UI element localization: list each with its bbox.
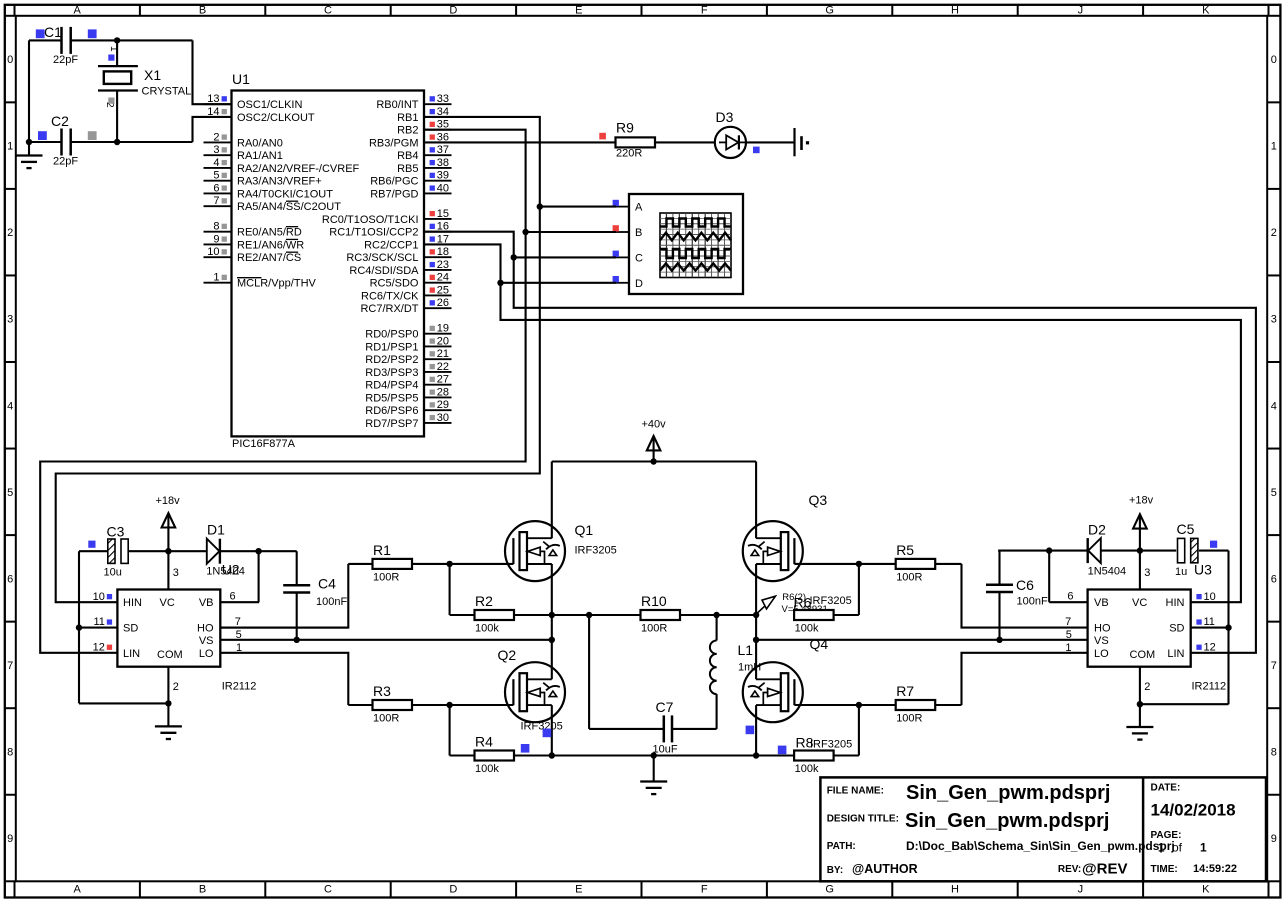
svg-text:L1: L1 — [738, 642, 754, 658]
svg-text:VC: VC — [160, 597, 175, 609]
svg-text:+18v: +18v — [1129, 495, 1154, 507]
svg-text:VS: VS — [199, 635, 214, 647]
svg-text:C2: C2 — [51, 113, 69, 129]
svg-text:11: 11 — [1204, 616, 1215, 628]
svg-text:27: 27 — [437, 374, 449, 386]
svg-text:R4: R4 — [475, 734, 493, 750]
svg-text:5: 5 — [213, 170, 219, 182]
svg-text:LIN: LIN — [1167, 648, 1184, 660]
svg-text:21: 21 — [437, 348, 449, 360]
svg-text:RB2: RB2 — [397, 125, 418, 137]
svg-text:CRYSTAL: CRYSTAL — [142, 86, 192, 98]
svg-text:PIC16F877A: PIC16F877A — [232, 438, 296, 450]
svg-text:A: A — [74, 5, 82, 17]
svg-text:1: 1 — [108, 46, 119, 52]
svg-text:100R: 100R — [373, 571, 399, 583]
svg-text:LO: LO — [199, 648, 214, 660]
svg-text:J: J — [1078, 884, 1084, 896]
svg-text:10: 10 — [1204, 591, 1216, 603]
svg-text:K: K — [1202, 5, 1210, 17]
svg-text:9: 9 — [1271, 833, 1277, 845]
svg-text:1: 1 — [213, 272, 219, 284]
svg-text:C1: C1 — [44, 24, 62, 40]
svg-text:10uF: 10uF — [653, 744, 678, 756]
svg-text:22pF: 22pF — [53, 156, 78, 168]
svg-text:VC: VC — [1132, 597, 1147, 609]
svg-text:40: 40 — [437, 182, 449, 194]
svg-text:RC1/T1OSI/CCP2: RC1/T1OSI/CCP2 — [329, 227, 418, 239]
svg-text:U1: U1 — [232, 71, 250, 87]
svg-text:RB1: RB1 — [397, 112, 418, 124]
svg-text:6: 6 — [1271, 573, 1277, 585]
svg-text:1: 1 — [1200, 841, 1207, 855]
svg-text:C3: C3 — [107, 524, 125, 540]
svg-text:1u: 1u — [1175, 566, 1187, 578]
svg-text:D: D — [449, 5, 457, 17]
svg-text:IR2112: IR2112 — [1192, 681, 1227, 693]
svg-text:C: C — [635, 252, 643, 264]
svg-text:4: 4 — [7, 400, 13, 412]
svg-text:@REV: @REV — [1082, 861, 1127, 878]
svg-text:9: 9 — [7, 833, 13, 845]
svg-text:RB6/PGC: RB6/PGC — [370, 176, 418, 188]
svg-text:F: F — [701, 884, 708, 896]
svg-text:18: 18 — [437, 246, 449, 258]
svg-text:A: A — [74, 884, 82, 896]
svg-text:33: 33 — [437, 93, 449, 105]
svg-text:B: B — [199, 5, 206, 17]
svg-text:R1: R1 — [373, 542, 391, 558]
svg-text:2: 2 — [1271, 227, 1277, 239]
svg-text:RE0/AN5/RD: RE0/AN5/RD — [237, 227, 302, 239]
svg-text:2: 2 — [1144, 681, 1150, 693]
svg-text:B: B — [199, 884, 206, 896]
svg-text:D: D — [635, 278, 643, 290]
svg-text:RB4: RB4 — [397, 150, 418, 162]
svg-text:IRF3205: IRF3205 — [521, 721, 563, 733]
svg-text:LO: LO — [1094, 648, 1109, 660]
svg-text:RD6/PSP6: RD6/PSP6 — [365, 405, 418, 417]
svg-text:C5: C5 — [1177, 521, 1195, 537]
svg-text:26: 26 — [437, 297, 449, 309]
svg-text:100R: 100R — [373, 713, 399, 725]
svg-text:SD: SD — [1169, 623, 1184, 635]
svg-text:OSC2/CLKOUT: OSC2/CLKOUT — [237, 112, 315, 124]
svg-text:R8: R8 — [796, 734, 814, 750]
svg-text:TIME:: TIME: — [1151, 864, 1178, 875]
svg-text:RD1/PSP1: RD1/PSP1 — [365, 341, 418, 353]
svg-text:6: 6 — [1067, 591, 1073, 603]
svg-text:RA5/AN4/SS/C2OUT: RA5/AN4/SS/C2OUT — [237, 201, 341, 213]
svg-text:+40v: +40v — [642, 419, 667, 431]
svg-text:Sin_Gen_pwm.pdsprj: Sin_Gen_pwm.pdsprj — [905, 810, 1109, 832]
svg-text:100R: 100R — [896, 571, 922, 583]
svg-text:14/02/2018: 14/02/2018 — [1151, 801, 1236, 820]
svg-text:X1: X1 — [144, 67, 161, 83]
svg-text:29: 29 — [437, 399, 449, 411]
svg-text:C: C — [324, 5, 332, 17]
svg-text:0: 0 — [7, 54, 13, 66]
svg-text:100k: 100k — [475, 763, 499, 775]
svg-text:7: 7 — [1065, 616, 1071, 628]
svg-text:100nF: 100nF — [1017, 596, 1048, 608]
svg-text:G: G — [825, 884, 834, 896]
svg-text:RD4/PSP4: RD4/PSP4 — [365, 380, 418, 392]
svg-text:7: 7 — [7, 660, 13, 672]
svg-text:25: 25 — [437, 284, 449, 296]
svg-text:of: of — [1172, 841, 1183, 855]
svg-text:Q4: Q4 — [810, 636, 829, 652]
svg-text:D2: D2 — [1088, 522, 1106, 538]
svg-text:100nF: 100nF — [316, 596, 347, 608]
svg-text:15: 15 — [437, 208, 449, 220]
svg-text:R2: R2 — [475, 593, 493, 609]
svg-text:B: B — [635, 227, 642, 239]
svg-text:0: 0 — [1271, 54, 1277, 66]
svg-text:22pF: 22pF — [53, 54, 78, 66]
svg-text:100k: 100k — [475, 623, 499, 635]
svg-text:24: 24 — [437, 272, 449, 284]
svg-text:RA3/AN3/VREF+: RA3/AN3/VREF+ — [237, 176, 322, 188]
svg-text:H: H — [951, 884, 959, 896]
svg-text:D3: D3 — [716, 109, 734, 125]
svg-text:D1: D1 — [207, 522, 225, 538]
svg-text:D: D — [449, 884, 457, 896]
svg-text:RC4/SDI/SDA: RC4/SDI/SDA — [349, 265, 419, 277]
svg-text:10u: 10u — [104, 567, 122, 579]
svg-text:RA2/AN2/VREF-/CVREF: RA2/AN2/VREF-/CVREF — [237, 163, 360, 175]
svg-text:IR2112: IR2112 — [222, 681, 257, 693]
svg-text:Q1: Q1 — [575, 522, 594, 538]
svg-text:Sin_Gen_pwm.pdsprj: Sin_Gen_pwm.pdsprj — [906, 782, 1110, 804]
svg-text:1: 1 — [1158, 841, 1165, 855]
svg-text:A: A — [635, 202, 643, 214]
svg-text:3: 3 — [1271, 314, 1277, 326]
svg-text:RE1/AN6/WR: RE1/AN6/WR — [237, 239, 304, 251]
svg-text:1N5404: 1N5404 — [1088, 566, 1127, 578]
svg-text:14: 14 — [207, 106, 219, 118]
svg-text:E: E — [575, 5, 582, 17]
svg-text:U2: U2 — [222, 562, 240, 578]
svg-text:3: 3 — [173, 567, 179, 579]
svg-text:14:59:22: 14:59:22 — [1193, 863, 1237, 875]
svg-text:100k: 100k — [795, 623, 819, 635]
svg-text:R5: R5 — [896, 542, 914, 558]
svg-text:8: 8 — [1271, 746, 1277, 758]
svg-text:3: 3 — [213, 144, 219, 156]
svg-text:PATH:: PATH: — [827, 841, 856, 852]
svg-text:7: 7 — [235, 616, 241, 628]
svg-text:RC3/SCK/SCL: RC3/SCK/SCL — [346, 252, 418, 264]
svg-text:19: 19 — [437, 323, 449, 335]
svg-text:12: 12 — [1204, 641, 1216, 653]
svg-text:20: 20 — [437, 335, 449, 347]
svg-text:Q3: Q3 — [809, 492, 828, 508]
svg-text:SD: SD — [123, 623, 138, 635]
svg-text:DESIGN TITLE:: DESIGN TITLE: — [827, 814, 899, 825]
svg-text:LIN: LIN — [123, 648, 140, 660]
svg-text:RC6/TX/CK: RC6/TX/CK — [361, 290, 419, 302]
svg-text:RA0/AN0: RA0/AN0 — [237, 137, 283, 149]
svg-text:5: 5 — [7, 487, 13, 499]
svg-text:C4: C4 — [318, 576, 336, 592]
svg-text:22: 22 — [437, 361, 449, 373]
svg-text:J: J — [1078, 5, 1084, 17]
svg-text:100R: 100R — [641, 623, 667, 635]
svg-text:1mH: 1mH — [738, 662, 761, 674]
svg-text:9: 9 — [213, 233, 219, 245]
svg-text:R3: R3 — [373, 683, 391, 699]
svg-text:39: 39 — [437, 170, 449, 182]
svg-text:7: 7 — [213, 195, 219, 207]
svg-text:RA1/AN1: RA1/AN1 — [237, 150, 283, 162]
svg-text:3: 3 — [7, 314, 13, 326]
svg-text:VB: VB — [199, 597, 214, 609]
svg-text:4: 4 — [1271, 400, 1277, 412]
svg-text:1: 1 — [7, 141, 13, 153]
svg-text:DATE:: DATE: — [1151, 783, 1181, 794]
svg-text:100R: 100R — [896, 713, 922, 725]
svg-text:4: 4 — [213, 157, 219, 169]
svg-text:COM: COM — [157, 649, 183, 661]
svg-text:RC7/RX/DT: RC7/RX/DT — [360, 303, 418, 315]
svg-text:H: H — [951, 5, 959, 17]
svg-text:13: 13 — [207, 93, 219, 105]
svg-text:11: 11 — [93, 616, 104, 628]
svg-text:5: 5 — [1271, 487, 1277, 499]
svg-text:12: 12 — [93, 641, 105, 653]
svg-text:RD0/PSP0: RD0/PSP0 — [365, 329, 418, 341]
svg-text:10: 10 — [207, 246, 219, 258]
svg-text:HIN: HIN — [1166, 597, 1185, 609]
svg-text:K: K — [1202, 884, 1210, 896]
svg-text:RB5: RB5 — [397, 163, 418, 175]
svg-text:RC0/T1OSO/T1CKI: RC0/T1OSO/T1CKI — [322, 214, 419, 226]
svg-text:+18v: +18v — [156, 495, 181, 507]
svg-text:FILE NAME:: FILE NAME: — [827, 786, 884, 797]
svg-text:1: 1 — [1065, 642, 1071, 654]
svg-text:R10: R10 — [641, 593, 667, 609]
svg-text:VS: VS — [1094, 635, 1109, 647]
svg-text:IRF3205: IRF3205 — [810, 738, 852, 750]
svg-text:6: 6 — [230, 591, 236, 603]
svg-text:OSC1/CLKIN: OSC1/CLKIN — [237, 99, 302, 111]
svg-text:1: 1 — [236, 642, 242, 654]
svg-text:E: E — [575, 884, 582, 896]
svg-text:COM: COM — [1130, 649, 1156, 661]
svg-text:IRF3205: IRF3205 — [575, 545, 617, 557]
svg-text:37: 37 — [437, 144, 449, 156]
svg-text:R7: R7 — [896, 683, 914, 699]
svg-text:HO: HO — [1094, 623, 1111, 635]
svg-text:2: 2 — [173, 681, 179, 693]
svg-text:RD5/PSP5: RD5/PSP5 — [365, 392, 418, 404]
svg-text:HO: HO — [197, 623, 214, 635]
svg-text:R6: R6 — [794, 595, 812, 611]
svg-text:RB3/PGM: RB3/PGM — [369, 137, 419, 149]
svg-text:2: 2 — [7, 227, 13, 239]
svg-text:RC5/SDO: RC5/SDO — [370, 278, 419, 290]
svg-text:D:\Doc_Bab\Schema_Sin\Sin_Gen_: D:\Doc_Bab\Schema_Sin\Sin_Gen_pwm.pdsprj — [906, 839, 1175, 853]
svg-text:3: 3 — [1144, 567, 1150, 579]
svg-text:100k: 100k — [795, 763, 819, 775]
svg-text:5: 5 — [236, 629, 242, 641]
svg-text:7: 7 — [1271, 660, 1277, 672]
svg-text:6: 6 — [213, 182, 219, 194]
svg-text:220R: 220R — [616, 148, 642, 160]
svg-text:REV:: REV: — [1058, 864, 1081, 875]
svg-text:8: 8 — [213, 221, 219, 233]
svg-text:5: 5 — [1066, 629, 1072, 641]
svg-text:R9: R9 — [616, 120, 634, 136]
svg-text:RA4/T0CKI/C1OUT: RA4/T0CKI/C1OUT — [237, 188, 333, 200]
svg-text:HIN: HIN — [123, 597, 142, 609]
svg-text:2: 2 — [213, 131, 219, 143]
svg-text:Q2: Q2 — [498, 647, 517, 663]
svg-text:U3: U3 — [1194, 562, 1212, 578]
svg-text:F: F — [701, 5, 708, 17]
svg-text:MCLR/Vpp/THV: MCLR/Vpp/THV — [237, 278, 317, 290]
svg-text:RB7/PGD: RB7/PGD — [370, 188, 418, 200]
svg-text:RE2/AN7/CS: RE2/AN7/CS — [237, 252, 301, 264]
svg-text:C7: C7 — [656, 699, 674, 715]
svg-text:23: 23 — [437, 259, 449, 271]
svg-text:BY:: BY: — [827, 865, 843, 876]
svg-text:28: 28 — [437, 386, 449, 398]
svg-text:PAGE:: PAGE: — [1151, 830, 1182, 841]
svg-text:G: G — [825, 5, 834, 17]
svg-text:VB: VB — [1094, 597, 1109, 609]
svg-text:6: 6 — [7, 573, 13, 585]
svg-text:30: 30 — [437, 412, 449, 424]
svg-text:@AUTHOR: @AUTHOR — [852, 862, 918, 876]
svg-text:RD3/PSP3: RD3/PSP3 — [365, 367, 418, 379]
svg-text:C6: C6 — [1016, 577, 1034, 593]
svg-text:RD2/PSP2: RD2/PSP2 — [365, 354, 418, 366]
svg-text:RB0/INT: RB0/INT — [376, 99, 418, 111]
svg-text:C: C — [324, 884, 332, 896]
svg-text:RC2/CCP1: RC2/CCP1 — [364, 239, 418, 251]
svg-text:8: 8 — [7, 746, 13, 758]
svg-text:38: 38 — [437, 157, 449, 169]
svg-text:1: 1 — [1271, 141, 1277, 153]
svg-text:RD7/PSP7: RD7/PSP7 — [365, 418, 418, 430]
svg-text:10: 10 — [93, 591, 105, 603]
